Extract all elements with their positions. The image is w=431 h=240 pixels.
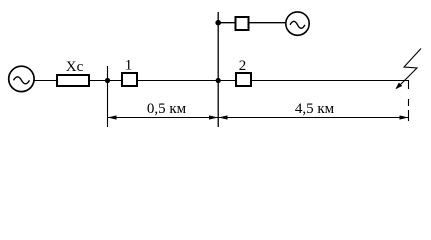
svg-text:4,5 км: 4,5 км xyxy=(295,101,335,117)
svg-text:2: 2 xyxy=(239,58,247,74)
svg-text:0,5 км: 0,5 км xyxy=(147,101,187,117)
svg-text:1: 1 xyxy=(125,58,133,74)
svg-text:Xc: Xc xyxy=(66,59,84,75)
